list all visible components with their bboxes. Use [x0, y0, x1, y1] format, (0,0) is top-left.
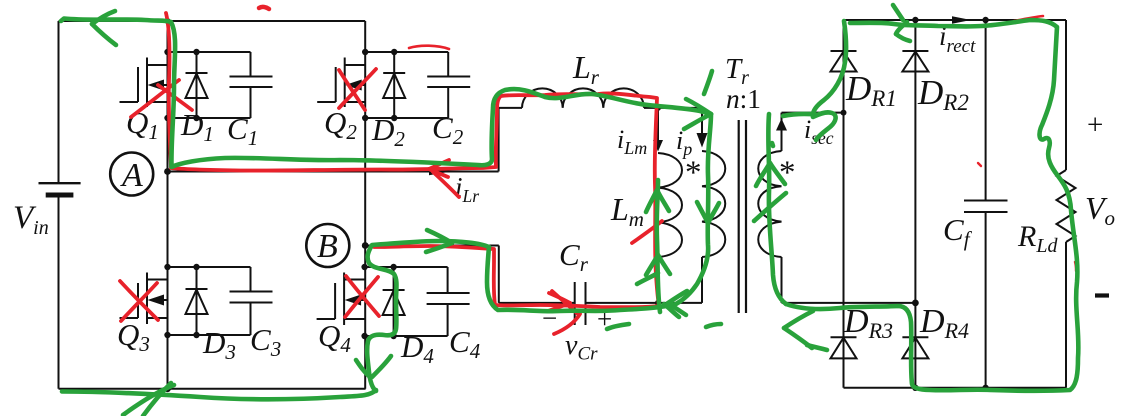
- transistor Q4 (MOSFET with D4, C4 snubber cell): [317, 267, 448, 336]
- capacitor C4: [427, 267, 470, 336]
- red speck on Cf leg: [978, 163, 981, 166]
- current arrow iLr on node A wire: [429, 168, 451, 175]
- capacitor C1: [230, 52, 273, 118]
- wire red path bottom return: [374, 246, 659, 307]
- node D2 bottom: [391, 115, 397, 121]
- svg-text:C1: C1: [227, 111, 258, 150]
- green arrows on secondary: [756, 163, 770, 186]
- svg-text:isec: isec: [804, 115, 834, 148]
- svg-text:D1: D1: [180, 107, 214, 146]
- wire green rectifier loop: [786, 20, 1078, 391]
- svg-text:iLm: iLm: [617, 125, 647, 158]
- svg-text:Vo: Vo: [1085, 190, 1115, 230]
- wire rectifier bottom rail: [844, 387, 1067, 389]
- node D4 top: [390, 264, 396, 270]
- transistor Q1 (MOSFET with D1, C1 snubber cell): [120, 52, 251, 118]
- node Q1 top: [164, 49, 170, 55]
- svg-text:C4: C4: [449, 324, 481, 363]
- green left arrow below secondary bottom: [784, 311, 813, 328]
- wire rectifier inner leg: [914, 20, 916, 388]
- svg-text:D3: D3: [202, 325, 236, 364]
- node D1 top: [193, 49, 199, 55]
- diode DR1: [831, 51, 857, 72]
- wire secondary bottom: [781, 257, 783, 303]
- wire bottom rail: [59, 388, 366, 390]
- capacitor C2: [427, 52, 470, 118]
- transformer Tr core: [739, 120, 746, 313]
- diode DR3: [831, 337, 857, 358]
- svg-text:B: B: [317, 228, 338, 265]
- diode D1: [186, 52, 208, 118]
- transformer secondary winding: [758, 151, 781, 257]
- node Q2 top: [362, 49, 368, 55]
- inductor Lm branch top wire: [657, 108, 659, 140]
- svg-text:Q4: Q4: [318, 318, 351, 357]
- green bottom left arrow cross: [123, 385, 174, 415]
- diode D4: [383, 267, 405, 336]
- red X over Q4: [346, 276, 379, 316]
- current arrow isec: [776, 119, 787, 131]
- wire primary bottom: [701, 257, 703, 303]
- wire rectifier left leg: [843, 20, 845, 388]
- wire green main loop left: [61, 19, 711, 168]
- green right arrow on B wire: [427, 230, 452, 243]
- red tick at Lm: [632, 221, 662, 243]
- transistor Q3 (MOSFET with D3, C3 snubber cell): [120, 267, 251, 335]
- wire secondary top to rectifier: [782, 112, 844, 114]
- node D1 bottom: [193, 115, 199, 121]
- svg-text:*: *: [779, 155, 796, 191]
- green arrow at Lr end barbs: [686, 99, 711, 114]
- red arrow at Cr: [549, 293, 570, 303]
- wire green primary descent: [487, 114, 711, 311]
- svg-text:A: A: [120, 157, 143, 194]
- battery Vin: [39, 183, 81, 195]
- svg-text:Lr: Lr: [572, 49, 600, 89]
- green left arrow on tank bottom: [668, 291, 687, 303]
- green arrow top left barbs: [92, 11, 115, 24]
- svg-text:*: *: [685, 155, 702, 191]
- node bottom rail left leg: [164, 385, 171, 392]
- node A junction: [164, 168, 171, 175]
- wire B to Cr: [499, 302, 575, 304]
- svg-text:vCr: vCr: [565, 330, 598, 365]
- node D2 top: [391, 49, 397, 55]
- wire node B horizontal: [365, 245, 499, 247]
- svg-text:Cr: Cr: [559, 237, 589, 276]
- svg-text:DR4: DR4: [919, 303, 969, 343]
- green up arrow on Lm upper: [646, 190, 657, 212]
- node secondary top junction: [841, 110, 847, 116]
- node rect bottom inner: [912, 385, 918, 391]
- green fork at Q4 bottom right: [372, 356, 391, 377]
- node rect top inner: [912, 17, 918, 23]
- wire right bridge leg: [364, 21, 366, 389]
- current arrow iLm: [653, 140, 663, 152]
- transistor Q2 (MOSFET with D2, C2 snubber cell): [317, 52, 448, 118]
- wire node A horizontal: [168, 171, 499, 173]
- svg-text:n:1: n:1: [726, 84, 761, 114]
- wire top rail: [59, 20, 366, 22]
- green up arrow on Lm lower: [646, 255, 658, 275]
- node B circle: [306, 224, 349, 267]
- wire green bottom rail run: [62, 390, 376, 399]
- svg-text:Cf: Cf: [943, 212, 973, 251]
- wire left rail (bottom of battery): [58, 196, 60, 389]
- inductor Lm bottom wire: [657, 257, 659, 303]
- svg-text:Q3: Q3: [117, 317, 150, 356]
- green chevron at top rail: [893, 5, 903, 20]
- red dash on top right rail: [1014, 16, 1043, 21]
- red small arc above C2: [409, 46, 449, 49]
- diode DR2: [902, 51, 928, 72]
- node B junction: [362, 242, 369, 249]
- red X over Q2: [339, 70, 365, 110]
- svg-text:DR2: DR2: [917, 73, 969, 115]
- green diagonals near Lm bottom: [637, 273, 658, 284]
- svg-text:DR1: DR1: [845, 69, 897, 111]
- svg-text:Vin: Vin: [13, 200, 49, 239]
- red speck top left: [259, 7, 269, 9]
- node Q1 bottom: [164, 115, 170, 121]
- node Lm top: [655, 105, 661, 111]
- wire secondary top: [781, 113, 783, 151]
- diode D3: [186, 267, 208, 335]
- wire to Lr: [499, 107, 522, 109]
- green dash near primary bottom: [706, 324, 721, 327]
- capacitor Cr: [575, 282, 586, 325]
- node D3 bottom: [193, 332, 199, 338]
- current arrow ip: [697, 133, 708, 148]
- wire Lr to primary: [644, 107, 702, 109]
- svg-text:Lm: Lm: [610, 191, 644, 231]
- wire secondary bottom to rectifier: [782, 302, 916, 304]
- transformer primary winding: [702, 151, 725, 257]
- resistor RLd: [1057, 20, 1076, 388]
- wire green B wire return: [367, 241, 489, 391]
- svg-text:iLr: iLr: [455, 172, 479, 206]
- inductor Lr: [522, 88, 644, 108]
- wire rectifier top rail: [844, 19, 1067, 21]
- diode D2: [383, 52, 405, 118]
- wire red path primary loop: [166, 13, 659, 306]
- node rect bottom Cf: [982, 385, 988, 391]
- node secondary bottom junction: [912, 300, 919, 307]
- svg-text:RLd: RLd: [1017, 220, 1058, 257]
- green dash below tank bottom wire: [607, 324, 629, 329]
- red arrow iLr barbs: [429, 160, 449, 169]
- hand-drawn red current path annotations: [120, 7, 1076, 334]
- green tick above ip: [704, 71, 712, 94]
- wire green secondary line: [768, 114, 786, 304]
- svg-text:C3: C3: [250, 322, 281, 361]
- red speck on load leg: [1075, 262, 1076, 271]
- node D4 bottom: [390, 333, 396, 339]
- svg-text:C2: C2: [432, 110, 464, 149]
- red X over Q1: [131, 80, 179, 117]
- green dash on secondary top wire: [783, 114, 816, 116]
- wire primary drop: [701, 108, 703, 133]
- node Q3 bottom: [164, 332, 170, 338]
- capacitor C3: [230, 267, 273, 335]
- node Lm bottom: [655, 300, 661, 306]
- green down arrow on primary: [697, 202, 708, 223]
- inductor Lm winding: [658, 153, 682, 257]
- node Q4 bottom: [361, 333, 367, 339]
- red X over Q3: [120, 281, 158, 320]
- green dot on secondary: [772, 143, 773, 146]
- node A circle: [110, 153, 153, 196]
- svg-text:+: +: [1087, 109, 1103, 141]
- wire tank riser B: [498, 246, 500, 303]
- svg-text:Q2: Q2: [324, 105, 357, 144]
- green fork at Q4 bottom left: [356, 360, 370, 377]
- wire green DR1 leg descent: [813, 21, 846, 140]
- node Q3 top: [164, 264, 170, 270]
- capacitor Cf: [964, 20, 1008, 388]
- wire green Lm upward line: [657, 180, 660, 312]
- node Q4 top: [361, 264, 367, 270]
- current arrow irect on top rail: [952, 16, 971, 24]
- wire left rail (top of battery): [58, 21, 60, 183]
- svg-text:Q1: Q1: [126, 105, 159, 144]
- node D3 top: [193, 264, 199, 270]
- node top rail left leg: [165, 18, 171, 24]
- node rect top Cf: [982, 17, 988, 23]
- diode DR4: [902, 337, 928, 358]
- svg-text:D4: D4: [400, 329, 434, 368]
- wire left bridge leg: [167, 21, 169, 389]
- wire tank riser A: [498, 108, 500, 172]
- label output minus: [1095, 293, 1109, 297]
- wire Cr to primary bottom: [586, 302, 703, 304]
- node Q2 bottom: [362, 115, 368, 121]
